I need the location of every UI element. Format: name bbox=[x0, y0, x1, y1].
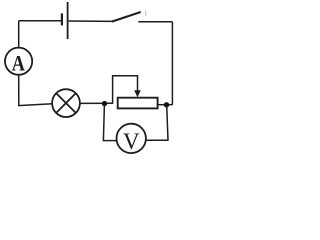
node A junction dot bbox=[102, 101, 107, 106]
rheostat R1 body bbox=[118, 98, 158, 109]
rheostat wiper arrowhead bbox=[134, 90, 141, 97]
lamp L1 cross stroke 2 bbox=[56, 93, 76, 113]
wire node B down to bottom-right corner bbox=[167, 105, 168, 140]
battery cell (long positive plate) bbox=[67, 2, 69, 39]
svg-text:V: V bbox=[123, 129, 140, 154]
wire right vertical (corner down to rheostat node) bbox=[171, 22, 173, 105]
wire battery to switch pivot bbox=[69, 20, 112, 22]
wire switch contact to top-right corner bbox=[138, 21, 172, 23]
wire lower-left corner to lamp bbox=[18, 104, 52, 106]
ammeter A1 body bbox=[5, 48, 32, 75]
svg-text:A: A bbox=[12, 50, 26, 75]
wire left vertical (corner to ammeter top) bbox=[18, 21, 20, 48]
lamp L1 body bbox=[52, 89, 80, 117]
voltmeter V1 body bbox=[117, 124, 146, 153]
wire bottom-right corner to voltmeter bbox=[146, 139, 169, 141]
wire bottom-left corner to voltmeter bbox=[103, 140, 117, 142]
switch fixed contact tick bbox=[145, 10, 147, 16]
wire top-left horizontal (battery to left corner) bbox=[19, 20, 62, 22]
wire node A down to bottom-left corner bbox=[103, 105, 104, 141]
rheostat wiper wire (riser, top run, drop) bbox=[113, 76, 138, 104]
wire rheostat right terminal to node B bbox=[158, 104, 173, 106]
wire lamp to node A bbox=[80, 102, 113, 104]
lamp L1 cross stroke 1 bbox=[56, 93, 76, 113]
switch S1 open lever bbox=[112, 12, 141, 22]
battery cell (short negative plate) bbox=[61, 13, 63, 25]
node B junction dot bbox=[164, 102, 169, 107]
wire ammeter bottom to lower-left corner bbox=[18, 75, 20, 106]
